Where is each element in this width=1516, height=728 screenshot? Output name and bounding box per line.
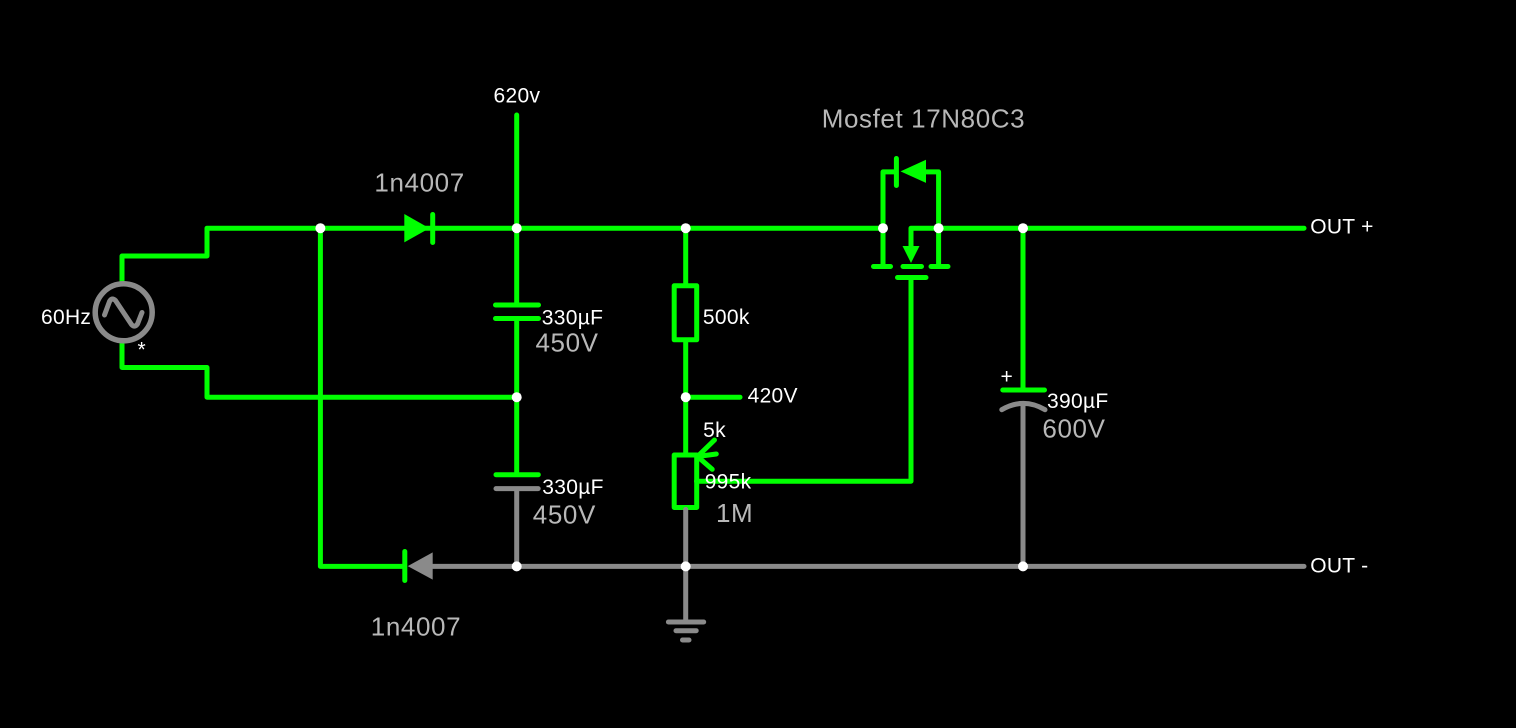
node drain junction dot <box>878 223 888 233</box>
wire: output rail OUT+ <box>939 226 1304 231</box>
node OUT- cap junction dot <box>1018 561 1028 571</box>
ground bar 1 <box>668 620 703 625</box>
svg-text:OUT -: OUT - <box>1310 555 1368 578</box>
svg-text:420V: 420V <box>748 385 798 408</box>
svg-text:1M: 1M <box>716 498 753 528</box>
ground bar 2 <box>676 628 696 633</box>
node source junction dot <box>934 223 944 233</box>
node R1 top junction dot <box>681 223 691 233</box>
diode D1 1n4007 triangle <box>404 214 429 242</box>
node C1-C2 junction dot <box>512 392 522 402</box>
potentiometer P1 wiper arrow <box>698 440 717 469</box>
mosfet Q1 body diode cathode bar <box>894 159 899 186</box>
svg-text:450V: 450V <box>533 500 596 530</box>
svg-text:330µF: 330µF <box>542 476 603 499</box>
capacitor C2 plate 2 (gray) <box>496 486 538 491</box>
svg-text:995k: 995k <box>705 471 752 494</box>
svg-text:500k: 500k <box>703 306 750 329</box>
mosfet Q1 channel bar right <box>931 264 948 269</box>
svg-text:5k: 5k <box>703 419 726 442</box>
mosfet Q1 body diode left lead <box>883 172 894 228</box>
svg-text:OUT +: OUT + <box>1310 216 1374 239</box>
wire: 620v stub <box>514 115 519 228</box>
mosfet Q1 bulk connection <box>911 228 939 247</box>
diode D2 cathode bar <box>402 552 407 581</box>
potentiometer P1 top lead <box>683 397 688 452</box>
svg-text:450V: 450V <box>536 328 599 358</box>
svg-text:600V: 600V <box>1042 414 1105 444</box>
wire: left drop from node A to bottom diode <box>320 228 402 566</box>
svg-text:*: * <box>138 339 146 362</box>
capacitor C3 bottom lead <box>1021 404 1026 566</box>
capacitor C2 bottom lead <box>514 491 519 566</box>
wire: 420V node stub <box>686 395 740 400</box>
svg-text:60Hz: 60Hz <box>41 306 91 329</box>
svg-text:620v: 620v <box>494 85 541 108</box>
wire: AC source bottom lead <box>122 342 517 397</box>
mosfet Q1 source lead <box>936 228 941 266</box>
svg-text:1n4007: 1n4007 <box>374 168 464 198</box>
capacitor C3 top lead <box>1021 228 1026 387</box>
ground lead <box>683 566 688 620</box>
capacitor C2 top lead <box>514 397 519 472</box>
capacitor C1 bottom lead <box>514 321 519 397</box>
ground bar 3 <box>683 638 690 643</box>
node A junction dot <box>315 223 325 233</box>
diode D1 cathode bar <box>430 215 435 243</box>
node C2 bottom junction dot <box>512 561 522 571</box>
AC source V1 circle <box>95 284 152 341</box>
mosfet Q1 body diode triangle <box>901 160 927 183</box>
svg-text:Mosfet 17N80C3: Mosfet 17N80C3 <box>822 104 1026 134</box>
diode D2 triangle (gray) <box>408 552 433 579</box>
capacitor C1 top lead <box>514 228 519 302</box>
AC source sine wave <box>105 299 143 326</box>
mosfet Q1 channel bar left <box>874 264 891 269</box>
node 420V junction dot <box>681 392 691 402</box>
mosfet Q1 gate plate <box>898 275 927 280</box>
svg-text:1n4007: 1n4007 <box>371 611 461 641</box>
potentiometer P1 body <box>674 455 697 508</box>
capacitor C3 positive plate <box>1003 388 1045 393</box>
mosfet Q1 bulk arrow <box>903 246 920 263</box>
node 620v junction dot <box>512 223 522 233</box>
resistor R1 500k bottom lead <box>683 341 688 397</box>
wire: AC source top lead <box>122 228 318 283</box>
svg-text:330µF: 330µF <box>542 307 603 330</box>
mosfet Q1 channel bar middle <box>903 264 922 269</box>
capacitor C3 negative arc plate <box>1002 403 1045 409</box>
svg-text:390µF: 390µF <box>1047 390 1108 413</box>
wire: top rail from node A to mosfet drain <box>320 226 883 231</box>
mosfet Q1 drain lead <box>881 228 886 266</box>
resistor R1 500k top lead <box>683 228 688 284</box>
wire: bottom rail OUT- <box>433 564 1304 569</box>
resistor R1 500k body <box>674 286 697 340</box>
capacitor C1 plate 2 <box>496 316 539 321</box>
node OUT+ cap junction dot <box>1018 223 1028 233</box>
wire: wiper to gate riser <box>697 278 912 482</box>
mosfet Q1 body diode right lead <box>926 172 939 228</box>
capacitor C2 plate 1 <box>496 472 538 477</box>
svg-text:+: + <box>1001 366 1014 389</box>
potentiometer P1 bottom lead (gray) <box>683 510 688 567</box>
node ground junction dot <box>681 561 691 571</box>
capacitor C1 plate 1 <box>496 303 539 308</box>
